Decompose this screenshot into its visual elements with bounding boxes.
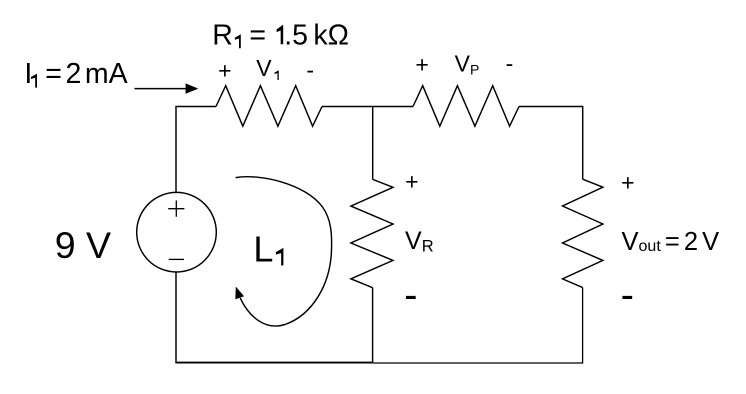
svg-text:+: + [405, 169, 418, 195]
resistor VR [351, 179, 393, 287]
wire right rail lower [582, 288, 584, 364]
wire top-left segment [176, 107, 216, 193]
wire left rail lower [175, 272, 177, 363]
svg-text:+: + [415, 52, 428, 78]
digit one sub V1 [275, 70, 279, 80]
resistor R1 [216, 86, 322, 127]
resistor Vout [563, 179, 603, 287]
svg-text:-: - [621, 273, 634, 317]
svg-text:9 V: 9 V [55, 224, 111, 266]
digit one sub R1 [235, 34, 241, 48]
svg-text:VR: VR [405, 227, 434, 255]
current arrow I1 head [186, 83, 199, 93]
current arrow I1 shaft [135, 88, 187, 90]
source plus sign [168, 201, 184, 217]
source minus sign [169, 258, 184, 260]
voltage source V1 circle [137, 192, 217, 272]
svg-text:I1 = 2 mA: I1 = 2 mA [24, 58, 127, 92]
wire middle rail upper [372, 107, 374, 180]
svg-text:V1: V1 [256, 55, 279, 84]
svg-text:-: - [506, 51, 514, 77]
digit one sub L1 [276, 248, 284, 266]
digit one sub I1 [31, 74, 37, 88]
svg-text:VP: VP [455, 51, 480, 78]
resistor VP [413, 86, 519, 127]
svg-text:Vout = 2 V: Vout = 2 V [622, 228, 720, 256]
loop L1 arc [236, 177, 332, 326]
digit one of 1.5 [277, 25, 284, 45]
svg-text:R1 = 1.5 kΩ: R1 = 1.5 kΩ [212, 20, 349, 55]
svg-text:+: + [621, 169, 634, 195]
svg-text:+: + [218, 57, 231, 83]
loop L1 arrowhead [235, 287, 244, 300]
svg-text:-: - [306, 57, 314, 83]
wire top-right segment [519, 107, 583, 180]
wire bottom rail right [373, 362, 582, 364]
wire bottom rail left [176, 362, 374, 364]
wire middle rail lower [372, 288, 374, 364]
wire top-middle segment [322, 106, 413, 108]
svg-text:-: - [404, 273, 417, 317]
